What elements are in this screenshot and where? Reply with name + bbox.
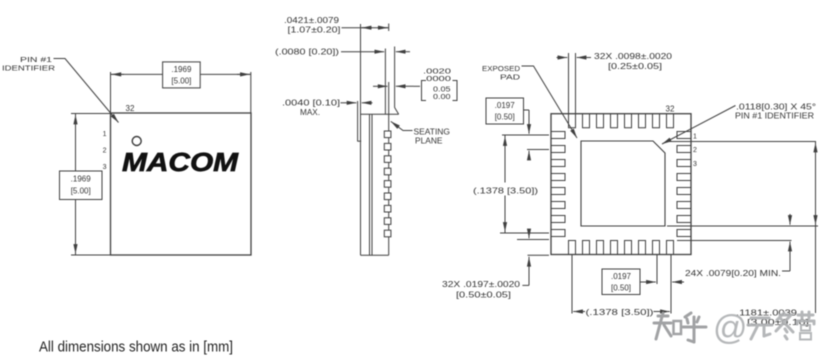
- svg-text:1: 1: [693, 133, 697, 140]
- svg-text:32: 32: [666, 105, 675, 114]
- svg-text:3: 3: [103, 164, 107, 171]
- svg-text:3: 3: [693, 161, 697, 168]
- svg-text:PLANE: PLANE: [415, 137, 443, 146]
- svg-text:.0118[0.30] X 45°: .0118[0.30] X 45°: [736, 102, 816, 111]
- svg-text:IDENTIFIER: IDENTIFIER: [2, 63, 56, 72]
- svg-text:@: @: [713, 309, 748, 347]
- svg-text:0.00: 0.00: [433, 92, 451, 101]
- svg-text:[0.50±0.05]: [0.50±0.05]: [456, 290, 511, 299]
- svg-text:MAX.: MAX.: [300, 108, 320, 117]
- svg-text:32: 32: [126, 104, 135, 113]
- svg-text:[0.50]: [0.50]: [611, 284, 631, 293]
- svg-text:2: 2: [693, 147, 697, 154]
- svg-text:[5.00]: [5.00]: [71, 187, 91, 196]
- svg-text:[0.50]: [0.50]: [495, 113, 515, 122]
- svg-text:32X .0098±.0020: 32X .0098±.0020: [594, 52, 673, 61]
- svg-text:32X .0197±.0020: 32X .0197±.0020: [442, 280, 521, 289]
- svg-text:.0000: .0000: [423, 74, 451, 83]
- svg-text:2: 2: [103, 148, 107, 155]
- svg-text:PAD: PAD: [500, 72, 521, 81]
- svg-text:All dimensions shown as in [mm: All dimensions shown as in [mm]: [39, 340, 233, 356]
- svg-text:SEATING: SEATING: [414, 128, 451, 137]
- svg-text:(.1378 [3.50]): (.1378 [3.50]): [586, 308, 654, 317]
- svg-text:[0.25±0.05]: [0.25±0.05]: [608, 62, 662, 71]
- svg-text:MACOM: MACOM: [122, 147, 240, 177]
- svg-text:(.1378 [3.50]): (.1378 [3.50]): [473, 186, 538, 195]
- svg-text:.0197: .0197: [495, 101, 516, 110]
- svg-text:.1969: .1969: [171, 65, 192, 74]
- svg-text:.0197: .0197: [611, 272, 632, 281]
- svg-text:(.0080 [0.20]): (.0080 [0.20]): [275, 48, 339, 57]
- svg-text:[1.07±0.20]: [1.07±0.20]: [288, 26, 341, 35]
- svg-text:.0421±.0079: .0421±.0079: [284, 16, 340, 25]
- svg-text:.1969: .1969: [71, 175, 92, 184]
- svg-text:[5.00]: [5.00]: [171, 77, 191, 86]
- svg-text:24X .0079[0.20] MIN.: 24X .0079[0.20] MIN.: [685, 269, 781, 278]
- svg-text:1: 1: [103, 131, 107, 138]
- svg-text:PIN #1 IDENTIFIER: PIN #1 IDENTIFIER: [735, 112, 814, 121]
- svg-text:.0040 [0.10]: .0040 [0.10]: [282, 99, 340, 108]
